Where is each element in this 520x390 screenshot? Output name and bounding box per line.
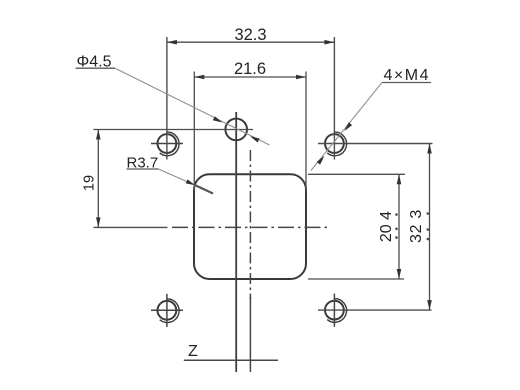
label R3.7: leader line <box>159 169 197 186</box>
hole E (bottom-right M4) inner circle <box>325 301 344 320</box>
label R3.7: leader stub past arrow <box>195 185 213 193</box>
label dia 4.5: underline <box>76 67 115 69</box>
dim 32.3 right: top arrow <box>427 144 432 154</box>
section mark Z: underline <box>184 359 278 361</box>
hole E vertical crosshair <box>333 294 335 327</box>
dim 20.4: bottom extension line <box>308 278 404 280</box>
hole D vertical crosshair <box>166 294 168 327</box>
label 4xM4: leader line through hole C <box>311 83 382 171</box>
dim 19: bottom arrow <box>96 217 101 227</box>
hole C horizontal crosshair + dim 32.3 right top extension line <box>318 143 433 145</box>
dim 32.3 right: stray dot 2 <box>427 228 430 231</box>
hole A horizontal crosshair + dim 19 top extension line <box>93 129 253 131</box>
dim 20.4: dimension line <box>398 174 400 279</box>
svg-text:32 3: 32 3 <box>408 209 425 243</box>
label 4xM4: arrow upper-right <box>344 122 352 131</box>
dim 32.3 top: left arrow <box>167 40 177 45</box>
hole E horizontal crosshair + dim 32.3 right bottom extension line <box>318 309 432 311</box>
dim 19: top arrow <box>96 130 101 140</box>
panel cutout outline (rounded square) <box>194 174 306 279</box>
hole D thread arc <box>160 299 179 323</box>
dim 20.4: stray dot 1 <box>395 213 398 216</box>
label dia 4.5: arrow lower-right <box>250 136 260 142</box>
dim 21.6: left arrow <box>194 75 204 80</box>
vertical centerline (dash-dot) <box>249 150 251 299</box>
dim 20.4: stray dot 3 <box>395 236 398 239</box>
dim 21.6: left extension line <box>193 72 195 192</box>
hole C vertical crosshair + dim 32.3 top right extension line <box>333 37 335 160</box>
hole B horizontal crosshair <box>151 143 183 145</box>
hole B thread arc <box>160 132 179 156</box>
dim 32.3 top: dimension line <box>167 41 335 43</box>
svg-text:4×M4: 4×M4 <box>384 67 430 84</box>
vertical centerline solid tail <box>249 297 251 372</box>
hole A (center, dia 4.5) circle <box>225 119 247 141</box>
dim 19: bottom extension line (solid part of centerline) <box>94 226 168 228</box>
horizontal centerline (dash-dot) <box>172 226 327 228</box>
hole B (top-left M4) inner circle <box>158 134 177 153</box>
dim 32.3 right: bottom arrow <box>427 300 432 310</box>
hole C (top-right M4) inner circle <box>325 134 344 153</box>
svg-text:Z: Z <box>188 343 198 360</box>
svg-text:20 4: 20 4 <box>378 211 395 242</box>
hole B vertical crosshair + dim 32.3 left extension line <box>166 37 168 160</box>
label dia 4.5: leader line through hole A <box>115 68 270 145</box>
hole C thread arc <box>327 132 346 156</box>
center guide line (solid vertical through hole A) <box>235 112 237 372</box>
dim 20.4: top extension line <box>308 173 405 175</box>
dim 32.3 top: right arrow <box>324 40 334 45</box>
dim 19: dimension line <box>97 130 99 228</box>
dim 21.6: right extension line <box>305 72 307 192</box>
dim 32.3 right: stray dot 3 <box>427 238 430 241</box>
dim 21.6: right arrow <box>296 75 306 80</box>
dim 20.4: top arrow <box>397 174 402 184</box>
hole E thread arc <box>327 299 346 323</box>
label R3.7: arrow <box>186 179 196 185</box>
dim 20.4: stray dot 2 <box>395 228 398 231</box>
label 4xM4: arrow lower-left <box>317 156 325 165</box>
label R3.7: underline <box>127 168 159 170</box>
svg-text:32.3: 32.3 <box>234 26 266 44</box>
dim 32.3 right: stray dot 1 <box>427 212 430 215</box>
hole D (bottom-left M4) inner circle <box>158 301 177 320</box>
dim 32.3 right: dimension line <box>429 144 431 311</box>
dim 21.6: dimension line <box>194 76 306 78</box>
hole D horizontal crosshair <box>151 309 183 311</box>
dim 20.4: bottom arrow <box>397 269 402 279</box>
svg-text:21.6: 21.6 <box>234 60 266 78</box>
svg-text:19: 19 <box>82 175 98 191</box>
label dia 4.5: arrow upper-left <box>213 116 223 122</box>
label 4xM4: underline <box>382 82 431 84</box>
